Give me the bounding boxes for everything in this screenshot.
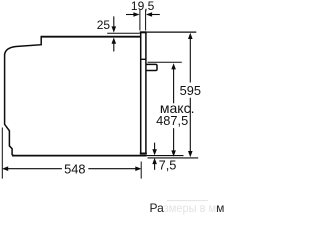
dim 7,5 upper down arrow: [154, 143, 156, 151]
control panel divider on door: [141, 58, 146, 60]
dim 548 line left segment with left arrow: [7, 168, 62, 170]
dim 548 left extension line: [1, 128, 3, 179]
dim 19,5 right extension line: [145, 10, 147, 31]
svg-text:548: 548: [64, 161, 85, 176]
svg-text:Размеры в мм: Размеры в мм: [150, 201, 225, 215]
svg-text:7,5: 7,5: [159, 158, 177, 173]
oven body top line: [41, 36, 142, 38]
door (front) rectangle: [141, 32, 146, 153]
dim 19,5 left extension line: [139, 10, 141, 31]
dim 7,5 lower up arrow: [154, 163, 156, 170]
dim 19,5 left arrow: [126, 14, 135, 16]
dim 25 down arrow: [113, 16, 115, 28]
bottom extension line A (body bottom, right of door): [147, 155, 184, 157]
bottom extension line B (door bottom level): [148, 157, 199, 159]
dim 25 up arrow: [113, 43, 115, 52]
dim 487,5 extension line: [148, 61, 182, 63]
dim 548 line right segment with right arrow: [88, 168, 136, 170]
door handle: [147, 64, 158, 70]
dim 595 line upper segment with up arrow: [189, 38, 191, 83]
oven body bottom line: [12, 155, 147, 157]
svg-text:25: 25: [97, 18, 111, 32]
oven body left/rear profile: [5, 37, 42, 156]
dim 487,5 line lower segment with down arrow: [173, 128, 175, 151]
dim 548 right extension line: [140, 162, 142, 179]
dim 595 line lower segment with down arrow: [189, 98, 191, 152]
faint artifact streak above caption: [167, 200, 208, 202]
cabinet top line right of door: [147, 31, 196, 33]
svg-text:487,5: 487,5: [156, 113, 188, 128]
svg-text:19,5: 19,5: [131, 0, 155, 13]
door bottom cap (thicker): [140, 153, 147, 155]
dim 19,5 right arrow: [151, 14, 160, 16]
svg-text:595: 595: [180, 83, 201, 98]
door top cap (thicker): [140, 31, 147, 33]
extension line left of door (door-top level): [107, 32, 140, 34]
dim 487,5 line upper segment with up arrow: [173, 68, 175, 103]
